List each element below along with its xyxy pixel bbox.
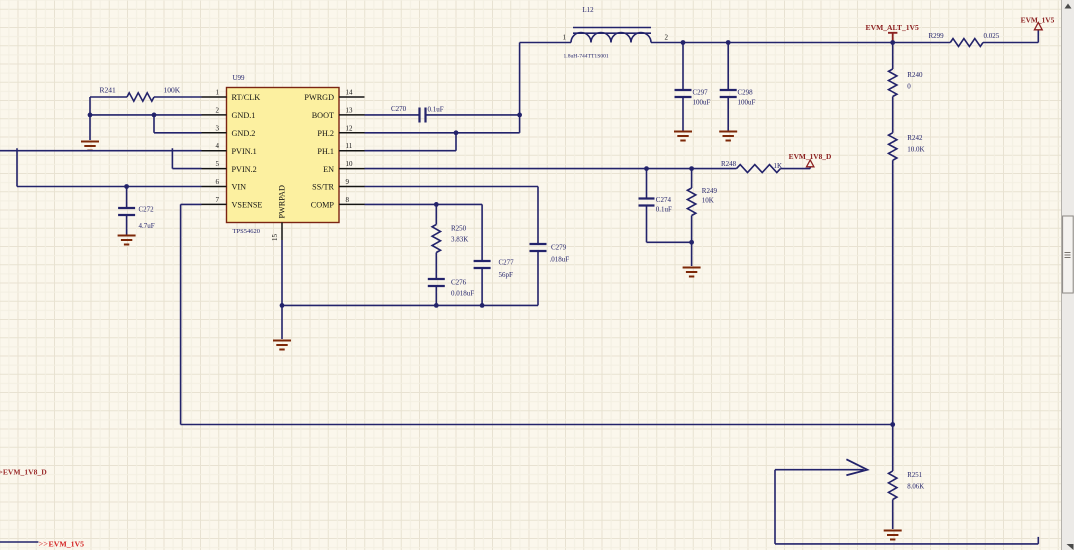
wire EN ground link (647, 241, 692, 243)
wire arrow run (775, 469, 864, 471)
svg-text:PH.2: PH.2 (317, 129, 334, 138)
svg-text:R251: R251 (907, 472, 922, 479)
pin number 15 (271, 234, 279, 242)
label C272 (139, 206, 155, 214)
svg-text:GND.2: GND.2 (232, 129, 256, 138)
junction at R241 vertical (88, 113, 93, 118)
svg-text:10.0K: 10.0K (907, 146, 924, 154)
wire comp bottom rail (282, 304, 538, 306)
svg-text:3: 3 (216, 124, 220, 132)
svg-text:3.83K: 3.83K (451, 236, 468, 244)
svg-text:R250: R250 (451, 225, 467, 233)
svg-text:C274: C274 (656, 196, 672, 204)
capacitor C277 (474, 261, 491, 268)
value label TPS54620 (233, 228, 260, 235)
wire C279 to rail (537, 251, 539, 305)
svg-text:C297: C297 (693, 89, 709, 97)
svg-text:TPS54620: TPS54620 (233, 228, 260, 235)
svg-text:10: 10 (346, 160, 354, 168)
wire BOOT to C270 (365, 114, 419, 116)
port chevrons EVM_1V5 (39, 540, 49, 549)
value 100uF (C297) (693, 99, 711, 107)
svg-text:R240: R240 (907, 71, 923, 79)
wire R249 bottom lead (691, 216, 693, 243)
wire divider riser (892, 43, 894, 70)
pin 1 stub (RT/CLK) (202, 96, 227, 98)
value 3.83K (451, 236, 468, 244)
svg-text:C298: C298 (738, 89, 754, 97)
resistor R250 (432, 225, 440, 253)
wire C297 ground stem (682, 97, 684, 131)
wire R250 to C276 (435, 253, 437, 279)
wire EN ground stem (691, 242, 693, 266)
label L12 (582, 6, 594, 14)
value 0.025 (984, 32, 1000, 40)
pin name PVIN.1 (232, 147, 257, 156)
wire PWRPAD ground stem (281, 305, 283, 339)
inductor L12 coil (571, 33, 651, 43)
pin number 1 (216, 89, 220, 97)
svg-text:>>: >> (39, 540, 49, 549)
wire C277 to rail (481, 268, 483, 305)
pin 13 stub (BOOT) (339, 114, 365, 116)
resistor R241 (127, 93, 154, 101)
resistor R299 (950, 39, 983, 47)
svg-text:.018uF: .018uF (550, 256, 570, 264)
capacitor C279 (530, 244, 547, 251)
resistor R248 (737, 165, 781, 173)
scrollbar top arrow (1065, 4, 1072, 9)
wire C272 top lead (126, 187, 128, 208)
junction C297 tap (681, 40, 686, 45)
svg-text:PWRPAD: PWRPAD (278, 185, 287, 218)
value 10K (702, 197, 714, 205)
resistor R251 (889, 471, 897, 500)
pin 14 stub (PWRGD) (339, 96, 365, 98)
value 56pF (499, 271, 514, 279)
junction R249 tap (689, 166, 694, 171)
wire C297 top lead (682, 43, 684, 90)
wire pin1 to R241 (154, 96, 202, 98)
ground (R241/GND) (81, 142, 99, 151)
svg-text:100uF: 100uF (738, 99, 756, 107)
svg-text:EVM_1V5: EVM_1V5 (49, 540, 85, 549)
svg-text:COMP: COMP (311, 201, 335, 210)
wire SS/TR net (365, 187, 539, 244)
pin number 3 (216, 124, 220, 132)
svg-text:0.025: 0.025 (984, 32, 1000, 40)
pin number 1 (L12) (563, 34, 567, 42)
wire C298 top lead (727, 43, 729, 90)
pin 6 stub (VIN) (202, 186, 227, 188)
wire R248 to port (781, 167, 811, 169)
svg-text:EVM_1V5: EVM_1V5 (1021, 15, 1055, 24)
svg-text:0: 0 (907, 83, 911, 91)
ground (C298) (719, 132, 737, 141)
value 0.1uF (428, 106, 444, 114)
capacitor C272 (118, 208, 135, 215)
pin name COMP (311, 201, 335, 210)
value .018uF (550, 256, 570, 264)
pin 4 stub (PVIN.1) (202, 150, 227, 152)
svg-text:4.7uF: 4.7uF (139, 222, 155, 230)
pin name EN (323, 165, 334, 174)
capacitor C274 (639, 199, 655, 206)
pin number 4 (216, 142, 220, 150)
value 0 (907, 83, 911, 91)
pin number 12 (346, 124, 354, 132)
svg-text:C272: C272 (139, 206, 155, 214)
svg-text:R299: R299 (929, 32, 945, 40)
capacitor C297 (675, 90, 692, 97)
pin name PH.2 (317, 129, 334, 138)
wire bottom loop (775, 470, 1038, 544)
power port EVM_ALT_1V5 (888, 33, 897, 43)
pin name PWRPAD (278, 185, 287, 218)
net label EVM_1V8_D (mid) (789, 152, 832, 161)
svg-text:C276: C276 (451, 279, 467, 287)
pin 9 stub (SS/TR) (339, 186, 365, 188)
svg-text:R241: R241 (100, 86, 117, 95)
svg-text:14: 14 (346, 89, 354, 97)
pin number 8 (346, 196, 350, 204)
wire PWRPAD to rail (281, 240, 283, 305)
wire PH.1 branch (365, 133, 457, 151)
junction EVM_ALT_1V5 (890, 40, 895, 45)
svg-text:EVM_ALT_1V5: EVM_ALT_1V5 (866, 23, 920, 32)
junction feedback node (890, 422, 895, 427)
label R251 (907, 472, 922, 479)
ground (R251) (884, 531, 902, 540)
junction C277 rail (480, 303, 485, 308)
value 0.018uF (451, 290, 474, 298)
op-amp U99 body (TPS54620 regulator) (227, 88, 340, 223)
svg-text:6: 6 (216, 178, 220, 186)
wire feedback node to R251 (892, 425, 894, 472)
svg-text:1.8uH-744TT1S001: 1.8uH-744TT1S001 (564, 54, 609, 60)
ground (C272) (118, 236, 136, 245)
pin name GND.1 (232, 111, 256, 120)
wire R242 to feedback node (892, 160, 894, 424)
value 100uF (C298) (738, 99, 756, 107)
pin 11 stub (PH.1) (339, 150, 365, 152)
pin number 10 (346, 160, 354, 168)
svg-text:U99: U99 (233, 74, 246, 82)
svg-text:10K: 10K (702, 197, 714, 205)
port EVM_1V8_D (sheet entry) (0, 467, 47, 476)
svg-text:100K: 100K (164, 86, 181, 95)
svg-text:RT/CLK: RT/CLK (232, 93, 261, 102)
pin number 5 (216, 160, 220, 168)
pin number 11 (346, 142, 353, 150)
wire COMP net (365, 203, 483, 205)
svg-text:1: 1 (216, 89, 220, 97)
wire PH riser to L12 (520, 42, 571, 44)
pin number 2 (L12) (665, 34, 669, 42)
svg-text:>EVM_1V8_D: >EVM_1V8_D (0, 467, 47, 476)
capacitor C270 (420, 108, 426, 123)
scrollbar bottom arrow (1067, 544, 1074, 550)
svg-text:4: 4 (216, 142, 220, 150)
label R242 (907, 134, 923, 142)
capacitor C276 (428, 279, 445, 286)
inductor L12 core bars (573, 28, 651, 34)
label R248 (721, 160, 737, 168)
wire EN net (365, 168, 737, 170)
junction C272 tap (124, 184, 129, 189)
svg-text:12: 12 (346, 124, 354, 132)
resistor R242 (889, 133, 897, 161)
svg-text:EN: EN (323, 165, 334, 174)
value 10.0K (907, 146, 924, 154)
net label EVM_ALT_1V5 (866, 23, 920, 32)
wire PH riser (519, 43, 521, 133)
wire R299 to EVM_1V5 port (983, 30, 1038, 43)
junction C276 rail (434, 303, 439, 308)
wire C274 top lead (646, 169, 648, 198)
label R240 (907, 71, 923, 79)
pin 12 stub (PH.2) (339, 132, 365, 134)
svg-text:PVIN.1: PVIN.1 (232, 147, 257, 156)
value 0.1uF (C274) (656, 206, 672, 214)
wire R299 left lead (893, 42, 951, 44)
pin number 9 (346, 178, 350, 186)
pin 5 stub (PVIN.2) (202, 168, 227, 170)
pin name GND.2 (232, 129, 256, 138)
pin 10 stub (EN) (339, 168, 365, 170)
value 1.8uH-744TT1S001 (564, 54, 609, 60)
wire R250 top lead (435, 204, 437, 224)
wire pin3 GND.2 (154, 115, 202, 133)
value 100K (164, 86, 181, 95)
svg-text:C277: C277 (499, 259, 515, 267)
wire C298 ground stem (727, 97, 729, 131)
label C270 (391, 105, 407, 113)
resistor R249 (687, 188, 695, 216)
svg-text:8.06K: 8.06K (907, 484, 924, 491)
svg-text:1: 1 (563, 34, 567, 42)
junction C274 tap (644, 166, 649, 171)
label R250 (451, 225, 467, 233)
wire R251 to ground (892, 500, 894, 530)
value 1K (774, 162, 783, 170)
svg-text:GND.1: GND.1 (232, 111, 256, 120)
junction pin3 riser (152, 113, 157, 118)
svg-text:0.018uF: 0.018uF (451, 290, 474, 298)
wire R240 to R242 (892, 97, 894, 133)
label C276 (451, 279, 467, 287)
scrollbar track (1062, 0, 1074, 550)
svg-text:8: 8 (346, 196, 350, 204)
pin number 14 (346, 89, 354, 97)
designator U99 (233, 74, 246, 82)
ground (C297) (674, 132, 692, 141)
pin 8 stub (COMP) (339, 203, 365, 205)
svg-text:56pF: 56pF (499, 271, 514, 279)
svg-text:2: 2 (216, 106, 220, 114)
wire EVM_1V5 port lead (0, 541, 38, 543)
label C298 (738, 89, 754, 97)
svg-text:PVIN.2: PVIN.2 (232, 165, 257, 174)
svg-text:SS/TR: SS/TR (312, 183, 334, 192)
junction PH.1/PH.2 (454, 130, 459, 135)
svg-text:C270: C270 (391, 105, 407, 113)
pin name PWRGD (304, 93, 334, 102)
svg-text:PWRGD: PWRGD (304, 93, 334, 102)
junction EN ground (689, 240, 694, 245)
svg-text:5: 5 (216, 160, 220, 168)
value 4.7uF (139, 222, 155, 230)
wire L12 output run (651, 42, 893, 44)
junction R250 tap (434, 202, 439, 207)
wire pin2 GND.1 (90, 114, 202, 116)
svg-text:C279: C279 (551, 244, 567, 252)
pin name SS/TR (312, 183, 334, 192)
wire R241 left to vertical (90, 96, 127, 98)
svg-text:PH.1: PH.1 (317, 147, 334, 156)
resistor R240 (889, 69, 897, 97)
pin 7 stub (VSENSE) (202, 203, 227, 205)
wire C270 to PH riser (426, 114, 520, 116)
label R249 (702, 187, 718, 195)
wire C274 bottom lead (646, 206, 648, 243)
wire VSENSE feedback run (181, 204, 893, 424)
wire tee down to VIN (17, 148, 202, 186)
ground (PWRPAD) (273, 341, 291, 350)
scrollbar thumb (1063, 216, 1074, 293)
svg-text:0.1uF: 0.1uF (428, 106, 444, 114)
net label EVM_1V5 (top) (1021, 15, 1055, 24)
svg-text:0.1uF: 0.1uF (656, 206, 672, 214)
svg-text:11: 11 (346, 142, 353, 150)
svg-text:9: 9 (346, 178, 350, 186)
wire PVIN input from left edge (0, 150, 202, 152)
svg-text:7: 7 (216, 196, 220, 204)
wire COMP down to C277 (481, 204, 483, 260)
pin name VIN (232, 183, 247, 192)
wire PVIN.2 branch (172, 148, 201, 168)
wire C276 to rail (435, 286, 437, 305)
pin 15 stub (PWRPAD) (281, 223, 283, 241)
pin number 2 (216, 106, 220, 114)
label R241 (100, 86, 117, 95)
svg-text:VIN: VIN (232, 183, 247, 192)
svg-text:R242: R242 (907, 134, 923, 142)
label C297 (693, 89, 709, 97)
svg-text:R248: R248 (721, 160, 737, 168)
pin name BOOT (312, 111, 334, 120)
wire C272 bottom lead (126, 215, 128, 235)
label R299 (929, 32, 945, 40)
pin name VSENSE (232, 201, 263, 210)
svg-text:2: 2 (665, 34, 669, 42)
svg-text:100uF: 100uF (693, 99, 711, 107)
label C279 (551, 244, 567, 252)
pin name RT/CLK (232, 93, 261, 102)
pin number 13 (346, 106, 354, 114)
pin 3 stub (GND.2) (202, 132, 227, 134)
pin 2 stub (GND.1) (202, 114, 227, 116)
arrowhead (off-sheet pointer) (846, 459, 867, 475)
wire left vertical to ground (89, 97, 91, 140)
svg-text:VSENSE: VSENSE (232, 201, 263, 210)
junction PWRPAD rail (280, 303, 285, 308)
port label EVM_1V5 (bottom) (49, 540, 85, 549)
wire PH.2 net (365, 132, 520, 134)
ground (EN) (683, 268, 701, 277)
pin number 6 (216, 178, 220, 186)
value 8.06K (907, 484, 924, 491)
svg-text:EVM_1V8_D: EVM_1V8_D (789, 152, 832, 161)
label C274 (656, 196, 672, 204)
junction C298 tap (726, 40, 731, 45)
svg-text:L12: L12 (582, 6, 594, 14)
svg-text:15: 15 (271, 234, 279, 242)
wire R249 top lead (691, 169, 693, 188)
power port EVM_1V5 (arrow) (1034, 23, 1042, 30)
power port EVM_1V8_D (arrow) (807, 160, 814, 167)
capacitor C298 (720, 90, 737, 97)
svg-text:13: 13 (346, 106, 354, 114)
pin name PH.1 (317, 147, 334, 156)
junction BOOT riser (517, 113, 522, 118)
pin name PVIN.2 (232, 165, 257, 174)
pin number 7 (216, 196, 220, 204)
label C277 (499, 259, 515, 267)
svg-text:R249: R249 (702, 187, 718, 195)
svg-text:BOOT: BOOT (312, 111, 334, 120)
